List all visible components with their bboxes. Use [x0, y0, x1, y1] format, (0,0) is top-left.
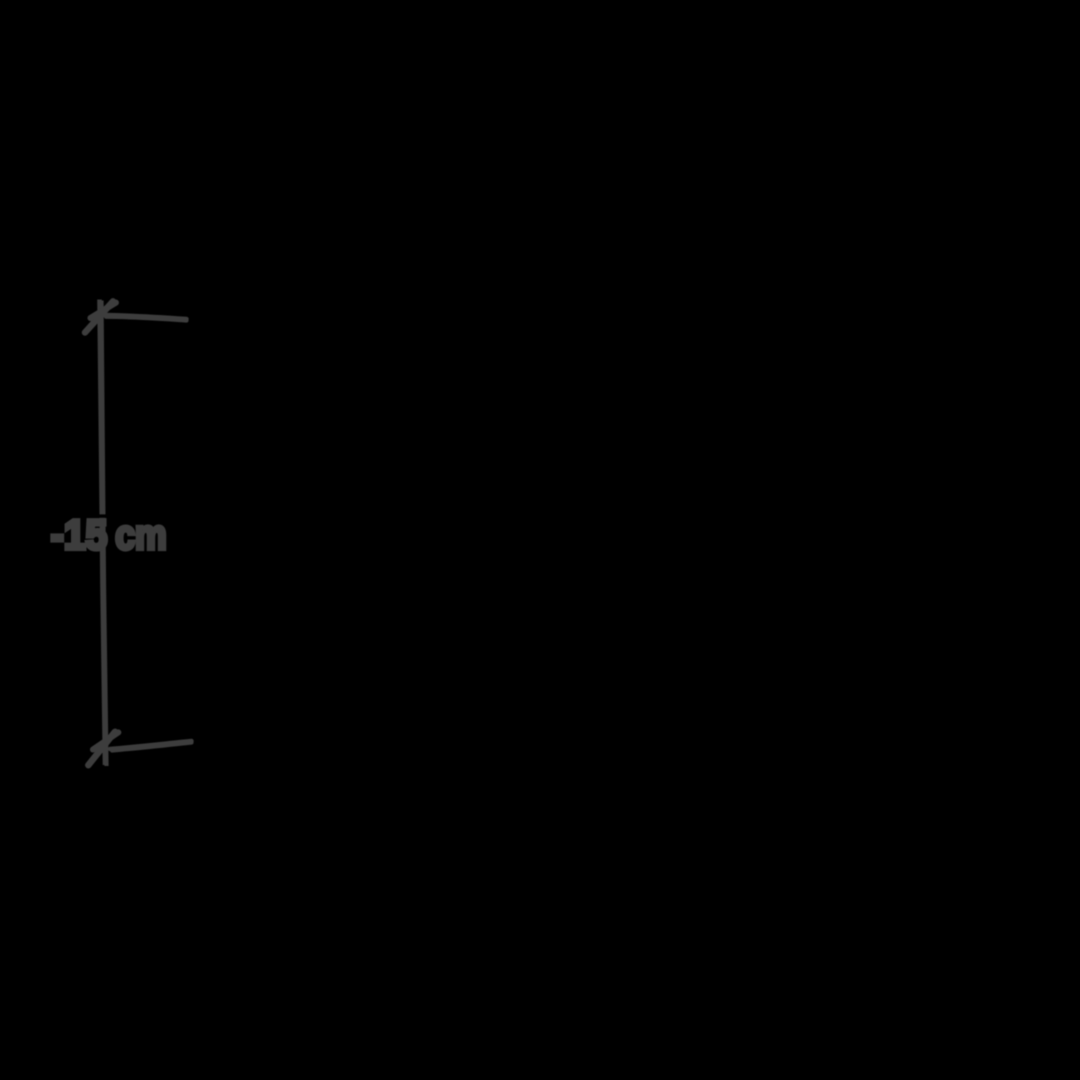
tick bottom second pass [93, 732, 118, 749]
wire top extension line [104, 315, 187, 319]
tick bottom [88, 732, 115, 765]
wire bottom extension line [110, 741, 192, 749]
tick top second pass [91, 303, 116, 318]
wire top extension line second pass [106, 317, 187, 321]
wire vertical dimension line second pass [102, 301, 107, 767]
wire bottom extension line second pass [112, 743, 192, 751]
svg-text:-15: -15 [51, 511, 108, 558]
wire vertical dimension line [100, 300, 106, 766]
gap in line above label [97, 514, 107, 517]
svg-text:cm: cm [115, 511, 167, 558]
tick top [85, 301, 113, 332]
